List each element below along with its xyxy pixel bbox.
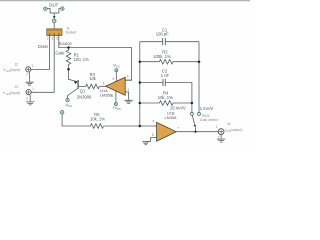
svg-text:1: 1 [216, 125, 218, 129]
Q1 emitter arrow [74, 81, 78, 84]
bottom wire left stub [62, 114, 90, 126]
svg-text:10k, 1%: 10k, 1% [158, 95, 173, 100]
wire: DUT gate terminal to socket [53, 23, 55, 29]
op-amp U1B (points right) [157, 122, 177, 141]
svg-text:4: 4 [112, 77, 114, 81]
connector J3 circle [26, 90, 31, 95]
svg-text:1: 1 [47, 36, 49, 40]
terminal: -VCC stub at bottom wire [60, 111, 64, 115]
svg-text:Gate: Gate [55, 50, 65, 55]
resistor R2 row [140, 59, 199, 64]
U1B pin5 stub to ground [146, 138, 156, 142]
wire: DUT left lead [47, 9, 50, 13]
svg-text:DUT: DUT [49, 2, 58, 7]
terminal: Q1 collector -VCC [66, 98, 69, 101]
wire: R1 bottom to Q1 emitter [69, 67, 78, 82]
svg-text:J3: J3 [14, 85, 18, 89]
wire: R3 to U1A apex [99, 86, 105, 88]
U1A pin2 stub [125, 79, 131, 81]
svg-text:2: 2 [127, 75, 129, 79]
wire: U1B output to J4 [176, 131, 218, 133]
connector J4 circle [218, 129, 224, 135]
svg-text:100k, 1%: 100k, 1% [153, 54, 171, 59]
DUT channel bar [50, 12, 59, 14]
wire: gate (pin2) down to J3 [31, 41, 54, 93]
svg-text:J2: J2 [14, 62, 18, 66]
socket pin stubs [50, 35, 59, 40]
svg-text:Socket: Socket [65, 30, 76, 34]
wire: R5 to U1B pin6 [104, 125, 157, 127]
ground: U1B pin5 [142, 142, 149, 145]
capacitor C2 row wires [140, 83, 192, 104]
DUT gate arrow [53, 16, 56, 19]
svg-text:Drain: Drain [38, 44, 49, 49]
svg-text:(output): (output) [230, 128, 242, 132]
svg-text:1 mA/V: 1 mA/V [200, 106, 214, 111]
wire: DUT right lead [59, 9, 61, 13]
svg-text:CC: CC [68, 104, 72, 108]
U1A pin3 stub to ground [125, 92, 128, 100]
svg-text:2: 2 [26, 96, 28, 100]
DUT center lead [53, 13, 55, 17]
right rail [198, 42, 200, 113]
svg-text:8: 8 [111, 94, 113, 98]
svg-text:100 pF: 100 pF [156, 31, 169, 36]
SW1 blade arrow [194, 125, 196, 128]
svg-text:Q1: Q1 [80, 89, 86, 94]
J2 ground stub [29, 72, 31, 82]
connector J2 circle [26, 67, 31, 72]
U1B pin6 entry [155, 125, 157, 127]
svg-text:1: 1 [103, 82, 105, 86]
resistor R5 [91, 124, 104, 129]
Q1 base lead [78, 86, 86, 88]
svg-text:3: 3 [56, 36, 58, 40]
terminal: +VCC at U1A pin8 [114, 103, 117, 106]
resistor R4 row [140, 101, 192, 106]
svg-text:7: 7 [177, 126, 179, 130]
svg-text:(input): (input) [10, 91, 20, 95]
ground: J4 [217, 139, 225, 142]
svg-text:CC: CC [117, 107, 121, 111]
SW1 contact right [198, 112, 201, 115]
ground: J2 [25, 82, 33, 85]
SW1 contact left [190, 112, 193, 115]
svg-text:1 nF: 1 nF [161, 73, 170, 78]
svg-text:1: 1 [32, 64, 34, 68]
resistor R1 (vertical) [66, 48, 71, 68]
transistor Q1 base bar [77, 80, 79, 89]
svg-text:LM358: LM358 [165, 115, 177, 120]
U1A pin4 power lead [115, 72, 117, 82]
svg-text:J4: J4 [227, 122, 231, 126]
svg-text:2: 2 [52, 36, 54, 40]
U1A pin8 power lead [115, 91, 117, 103]
top border line [0, 0, 250, 1]
J3 ground stub [29, 95, 31, 102]
junction dots [67, 46, 200, 133]
ground: J3 [26, 102, 34, 105]
terminal: DUT gate [52, 19, 56, 23]
capacitor C2 plates [163, 79, 165, 86]
svg-text:5: 5 [152, 133, 154, 137]
resistor R3 (horizontal) [86, 84, 100, 89]
svg-text:Gain select: Gain select [200, 118, 218, 122]
svg-text:10k, 1%: 10k, 1% [90, 117, 105, 122]
svg-text:3: 3 [127, 88, 129, 92]
ground: U1A pin3 [124, 100, 132, 103]
svg-text:1: 1 [32, 87, 34, 91]
svg-text:2: 2 [26, 72, 28, 76]
socket J1 [47, 29, 62, 36]
svg-text:Source: Source [59, 41, 73, 46]
svg-text:2: 2 [218, 135, 220, 139]
left feedback rail [139, 42, 141, 126]
svg-text:2N3906: 2N3906 [77, 95, 92, 100]
op-amp U1A (points left) [106, 77, 126, 95]
terminal: DUT source [61, 7, 64, 10]
terminal: -VCC at U1A pin4 [115, 69, 118, 72]
Q1 collector lead [68, 88, 79, 98]
svg-text:CC: CC [116, 64, 120, 68]
J4 ground stub [220, 135, 222, 139]
capacitor C1 row wires [140, 41, 199, 43]
SW1 blade [192, 115, 195, 126]
SW1 upper contact lead [191, 103, 193, 112]
svg-text:100, 1%: 100, 1% [74, 57, 90, 62]
wire: source (pin3) to source rail, down to U1A pin2 [59, 41, 132, 81]
SW1 pole stub [195, 127, 197, 132]
svg-text:10k: 10k [89, 76, 97, 81]
svg-text:LM358: LM358 [100, 92, 112, 97]
wire: drain (pin1) down to J2 [31, 41, 50, 70]
svg-text:(input): (input) [10, 68, 20, 72]
capacitor C1 plates [163, 38, 166, 45]
terminal: DUT drain [44, 7, 47, 10]
svg-text:6: 6 [153, 120, 155, 124]
